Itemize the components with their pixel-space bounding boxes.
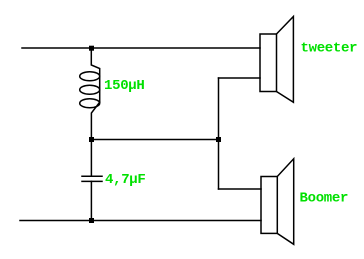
- wire bottom rail: [20, 220, 261, 222]
- speaker tweeter cone: [277, 17, 294, 103]
- inductor L1 exit wire: [91, 102, 99, 138]
- wire tweeter lower terminal: [219, 77, 261, 79]
- svg-text:150µH: 150µH: [104, 78, 145, 94]
- svg-text:tweeter: tweeter: [301, 41, 358, 57]
- capacitor C1 bottom plate: [82, 180, 102, 182]
- node junction bottom: [89, 218, 94, 223]
- inductor L1 entry wire: [91, 50, 99, 102]
- node junction mid-right: [216, 137, 221, 142]
- wire boomer upper terminal: [219, 188, 262, 190]
- capacitor C1 top plate: [82, 175, 102, 177]
- node junction mid-left (L/C tap): [89, 137, 94, 142]
- node junction top (inductor tap): [89, 46, 94, 51]
- svg-text:4,7µF: 4,7µF: [105, 172, 146, 188]
- svg-text:Boomer: Boomer: [300, 190, 349, 206]
- wire capacitor top lead: [90, 141, 92, 176]
- inductor L1 loop 2: [80, 85, 100, 94]
- speaker tweeter body: [260, 34, 277, 92]
- inductor L1 loop 1: [80, 72, 100, 81]
- speaker boomer cone: [277, 159, 293, 245]
- speaker boomer body: [261, 177, 277, 234]
- inductor L1 loop 3: [80, 99, 100, 108]
- wire tweeter return (vertical): [218, 78, 220, 189]
- wire top rail: [22, 47, 260, 49]
- wire capacitor bottom lead: [90, 181, 92, 219]
- wire mid rail to crossover: [92, 139, 219, 141]
